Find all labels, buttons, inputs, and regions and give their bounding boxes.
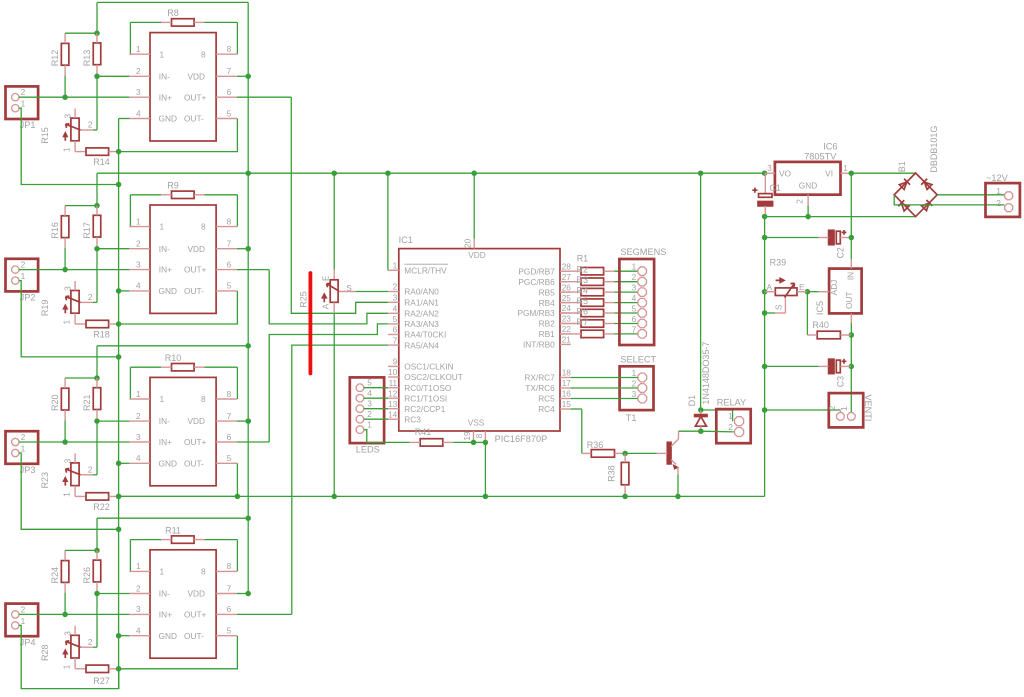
svg-text:1: 1 [21, 99, 26, 109]
wire [194, 195, 237, 227]
resistor R2 [581, 278, 604, 285]
svg-text:OUT-: OUT- [184, 114, 204, 124]
pin stubs [129, 561, 237, 636]
trimmer R15 [40, 109, 93, 153]
svg-text:7: 7 [227, 411, 232, 421]
svg-text:IN: IN [846, 272, 856, 280]
wire [62, 410, 68, 445]
wire [237, 613, 292, 615]
wire [19, 441, 130, 443]
wire [849, 313, 855, 337]
wire [19, 453, 122, 532]
svg-text:3: 3 [63, 286, 73, 291]
svg-text:PIC16F870P: PIC16F870P [495, 434, 548, 444]
svg-text:IC6: IC6 [823, 142, 837, 152]
svg-text:R8: R8 [167, 8, 179, 18]
wire [604, 270, 638, 272]
connector JP2 [6, 259, 39, 303]
wire [109, 494, 122, 500]
svg-text:1: 1 [61, 664, 71, 669]
svg-text:GND: GND [799, 180, 817, 190]
svg-text:10: 10 [388, 367, 398, 377]
svg-text:R13: R13 [82, 50, 92, 67]
wire [194, 22, 237, 54]
svg-text:1N4148DO35-7: 1N4148DO35-7 [701, 342, 711, 405]
wire [97, 248, 129, 250]
svg-text:1: 1 [61, 147, 71, 152]
svg-text:2: 2 [136, 66, 141, 76]
wire [624, 453, 626, 462]
svg-text:4: 4 [367, 388, 372, 398]
svg-text:RC5: RC5 [538, 394, 555, 404]
svg-text:R10: R10 [165, 353, 182, 363]
svg-text:R38: R38 [606, 465, 616, 482]
svg-text:R5: R5 [577, 296, 589, 306]
svg-text:R9: R9 [167, 181, 179, 191]
svg-text:2: 2 [367, 409, 372, 419]
wire [94, 582, 100, 647]
wire [119, 119, 238, 152]
svg-text:JP4: JP4 [20, 637, 36, 647]
svg-text:VDD: VDD [188, 71, 206, 81]
wire [850, 259, 852, 268]
svg-text:GND: GND [159, 114, 177, 124]
svg-text:IN+: IN+ [159, 610, 172, 620]
wire [97, 593, 129, 595]
svg-text:DBDB101G: DBDB101G [929, 126, 939, 173]
op-amp IC block 1 [150, 33, 216, 141]
svg-text:8: 8 [227, 216, 232, 226]
wire [625, 452, 657, 454]
wire [364, 430, 410, 443]
op-amp IC block 4 [150, 550, 216, 658]
svg-text:RC4: RC4 [538, 404, 555, 414]
wire [698, 428, 704, 434]
svg-text:1: 1 [136, 44, 141, 54]
wire [604, 291, 638, 293]
svg-text:R19: R19 [40, 300, 50, 317]
svg-text:2: 2 [632, 272, 637, 282]
svg-text:16: 16 [562, 389, 572, 399]
svg-text:MCLR/THV: MCLR/THV [404, 266, 447, 276]
svg-text:OSC2/CLKOUT: OSC2/CLKOUT [404, 372, 463, 382]
svg-text:R27: R27 [93, 676, 110, 686]
wire [765, 410, 841, 412]
svg-text:7: 7 [393, 335, 398, 345]
wire [364, 408, 388, 410]
svg-text:RA3/AN3: RA3/AN3 [404, 319, 439, 329]
svg-text:OSC1/CLKIN: OSC1/CLKIN [404, 362, 453, 372]
svg-text:OUT-: OUT- [184, 631, 204, 641]
wire [96, 33, 98, 43]
svg-text:1: 1 [367, 420, 372, 430]
svg-text:E: E [799, 282, 805, 292]
svg-text:6: 6 [227, 259, 232, 269]
svg-text:R11: R11 [165, 525, 181, 535]
wire [443, 441, 474, 443]
wire [19, 96, 130, 98]
wire [937, 194, 1004, 196]
capacitor C3 [765, 359, 852, 387]
svg-text:R14: R14 [93, 157, 110, 167]
svg-text:VDD: VDD [188, 244, 206, 254]
wire [75, 323, 86, 325]
wire [75, 151, 86, 153]
wire [849, 335, 855, 369]
svg-text:RB1: RB1 [539, 329, 556, 339]
svg-text:13: 13 [388, 399, 398, 409]
resistor R21 [82, 388, 101, 411]
node VDD bus [245, 2, 251, 593]
wire [571, 387, 638, 389]
wire [62, 238, 68, 273]
connector JP3 [6, 431, 39, 475]
wire [841, 170, 855, 176]
wire [237, 441, 269, 443]
svg-text:JP3: JP3 [20, 465, 36, 475]
resistor R38 [606, 462, 628, 484]
wire [805, 195, 811, 220]
node GND rail [116, 410, 765, 499]
resistor R16 [50, 216, 69, 239]
svg-text:R16: R16 [50, 222, 60, 239]
wire [765, 312, 786, 314]
wire [615, 451, 628, 457]
svg-text:C2: C2 [836, 247, 846, 258]
svg-text:RELAY: RELAY [717, 398, 746, 408]
svg-text:8: 8 [201, 567, 206, 577]
resistor R4 [581, 299, 604, 306]
svg-text:2: 2 [795, 199, 805, 204]
svg-text:VI: VI [825, 169, 833, 179]
svg-text:IN+: IN+ [159, 92, 172, 102]
wire [364, 397, 388, 399]
svg-text:1: 1 [61, 320, 71, 325]
svg-text:2: 2 [728, 422, 733, 432]
svg-text:2: 2 [88, 120, 93, 130]
svg-text:R15: R15 [40, 127, 50, 144]
svg-text:R21: R21 [82, 395, 92, 412]
resistor R11 [165, 525, 194, 543]
wire [765, 172, 775, 174]
svg-text:3: 3 [63, 631, 73, 636]
wire [560, 302, 581, 304]
resistor R1 [581, 268, 604, 275]
wire [97, 1, 248, 3]
svg-text:3: 3 [63, 458, 73, 463]
wire [194, 367, 237, 399]
wire [698, 173, 704, 413]
svg-text:25: 25 [562, 293, 572, 303]
svg-text:7: 7 [227, 66, 232, 76]
svg-text:2: 2 [136, 583, 141, 593]
wire [622, 485, 628, 499]
bus R25 [299, 273, 311, 374]
wire [701, 430, 734, 433]
wire [571, 398, 638, 400]
wire [119, 291, 238, 324]
wire [269, 324, 388, 442]
wire [109, 321, 122, 327]
node GND [762, 214, 916, 220]
svg-text:11: 11 [389, 378, 398, 388]
bridge rectifier B1 [894, 126, 939, 217]
svg-text:R17: R17 [82, 222, 92, 239]
wire [571, 409, 582, 453]
wire [571, 377, 638, 379]
svg-text:6: 6 [632, 314, 637, 324]
svg-text:OUT-: OUT- [184, 286, 204, 296]
wire [850, 173, 852, 259]
svg-text:RX/RC7: RX/RC7 [524, 373, 555, 383]
svg-text:1: 1 [728, 411, 733, 421]
svg-text:4: 4 [136, 453, 141, 463]
svg-text:OUT+: OUT+ [184, 437, 207, 447]
wire [560, 281, 581, 283]
svg-text:INT/RB0: INT/RB0 [523, 340, 555, 350]
svg-text:RB5: RB5 [539, 287, 556, 297]
svg-text:R2: R2 [577, 265, 589, 275]
svg-text:RA4/T0CKI: RA4/T0CKI [404, 330, 446, 340]
wire [291, 97, 388, 313]
resistor R3 [581, 288, 604, 295]
svg-text:RB2: RB2 [539, 319, 556, 329]
svg-text:5: 5 [367, 378, 372, 388]
svg-text:R41: R41 [415, 427, 432, 437]
resistor R5 [581, 309, 604, 316]
wire [97, 75, 129, 77]
svg-text:6: 6 [227, 432, 232, 442]
svg-text:JP2: JP2 [20, 293, 36, 303]
svg-text:RA5/AN4: RA5/AN4 [404, 340, 439, 350]
svg-text:1: 1 [843, 163, 848, 173]
wire [116, 633, 130, 639]
node +5V rail [97, 170, 767, 176]
svg-text:5: 5 [393, 314, 398, 324]
connector LEDS [350, 377, 384, 454]
svg-text:IC1: IC1 [399, 235, 413, 245]
svg-text:26: 26 [562, 282, 572, 292]
wire [65, 548, 100, 561]
svg-text:9: 9 [393, 357, 398, 367]
svg-text:2: 2 [88, 464, 93, 474]
wire [65, 375, 100, 388]
wire [75, 668, 86, 670]
svg-text:OUT+: OUT+ [184, 265, 207, 275]
svg-text:2: 2 [21, 432, 26, 442]
wire [97, 515, 251, 521]
svg-text:~12V: ~12V [986, 173, 1009, 183]
resistor R24 [50, 561, 69, 584]
svg-text:R18: R18 [93, 330, 110, 340]
resistor R22 [86, 493, 110, 512]
svg-text:1: 1 [839, 406, 849, 411]
svg-text:R26: R26 [82, 567, 92, 584]
svg-text:OUT-: OUT- [184, 458, 204, 468]
wire [19, 108, 122, 187]
resistor R10 [165, 353, 194, 371]
wire [119, 118, 130, 120]
svg-text:8: 8 [201, 394, 206, 404]
svg-text:GND: GND [159, 286, 177, 296]
wire [292, 345, 388, 614]
svg-text:R3: R3 [577, 275, 589, 285]
resistor R41 [415, 427, 443, 446]
voltage regulator IC6 7805TV [767, 142, 848, 204]
svg-text:2: 2 [827, 405, 837, 410]
wire [471, 440, 488, 500]
svg-text:2: 2 [632, 378, 637, 388]
wire [560, 323, 581, 325]
wire [237, 591, 251, 597]
wire [762, 407, 768, 413]
svg-text:2: 2 [996, 198, 1001, 208]
svg-text:VSS: VSS [468, 418, 485, 428]
pin stubs [129, 389, 237, 464]
labels R1-R7 [577, 253, 589, 327]
svg-text:28: 28 [562, 261, 572, 271]
svg-text:SELECT: SELECT [620, 355, 656, 365]
resistor R7 [581, 330, 604, 337]
svg-text:3: 3 [136, 259, 141, 269]
wire [387, 173, 389, 270]
svg-text:A: A [321, 303, 331, 309]
svg-text:TX/RC6: TX/RC6 [525, 383, 555, 393]
svg-text:1: 1 [632, 262, 637, 272]
svg-text:A: A [767, 282, 773, 292]
wire [410, 441, 420, 443]
wire [805, 289, 829, 295]
svg-text:GND: GND [159, 631, 177, 641]
svg-text:IN-: IN- [159, 244, 170, 254]
svg-text:VDD: VDD [468, 250, 486, 260]
svg-text:R28: R28 [40, 644, 50, 661]
svg-text:VENTI: VENTI [863, 394, 873, 421]
wire [116, 461, 130, 467]
resistor R40 [812, 320, 840, 339]
wire [894, 195, 1004, 205]
svg-text:6: 6 [227, 87, 232, 97]
resistor R12 [50, 43, 69, 66]
svg-text:PGD/RB7: PGD/RB7 [518, 266, 555, 276]
svg-text:RA1/AN1: RA1/AN1 [404, 298, 439, 308]
capacitor C2 [765, 230, 854, 258]
wire [80, 301, 97, 303]
svg-text:1: 1 [160, 567, 165, 577]
wire [80, 474, 97, 476]
svg-text:3: 3 [136, 432, 141, 442]
trimmer R39 [765, 257, 808, 313]
wire [96, 2, 98, 33]
svg-text:VDD: VDD [188, 589, 206, 599]
wire [62, 582, 68, 617]
svg-text:1: 1 [136, 561, 141, 571]
svg-text:3: 3 [63, 114, 73, 119]
svg-text:R22: R22 [93, 502, 110, 512]
svg-text:8: 8 [201, 222, 206, 232]
microcontroller IC1 PIC16F870P [388, 235, 571, 444]
svg-text:18: 18 [562, 368, 572, 378]
svg-text:2: 2 [88, 637, 93, 647]
svg-text:1: 1 [160, 222, 165, 232]
trimmer R25 [321, 173, 353, 496]
svg-text:1: 1 [61, 492, 71, 497]
wire [560, 333, 581, 335]
svg-text:RC1/T1OSI: RC1/T1OSI [404, 393, 447, 403]
wire [269, 270, 388, 324]
svg-text:22: 22 [562, 324, 572, 334]
svg-text:C1: C1 [769, 183, 781, 193]
wire [96, 346, 98, 378]
svg-text:14: 14 [388, 409, 398, 419]
wire [604, 281, 638, 283]
wire [94, 410, 100, 475]
svg-text:4: 4 [136, 281, 141, 291]
svg-text:1: 1 [21, 271, 26, 281]
pin stubs [129, 44, 237, 119]
trimmer R28 [40, 626, 93, 670]
resistor R36 [587, 440, 615, 457]
wire [807, 292, 817, 335]
svg-text:5: 5 [227, 108, 232, 118]
svg-text:SEGMENS: SEGMENS [620, 247, 666, 257]
wire [850, 366, 852, 412]
wire [96, 518, 98, 550]
wire [97, 420, 129, 422]
svg-text:8: 8 [227, 44, 232, 54]
svg-text:1: 1 [160, 49, 165, 59]
svg-text:IN+: IN+ [159, 265, 172, 275]
svg-text:2: 2 [136, 411, 141, 421]
svg-text:R36: R36 [587, 440, 604, 450]
svg-text:RC3: RC3 [404, 414, 421, 424]
wire [194, 540, 237, 572]
svg-text:7: 7 [227, 583, 232, 593]
svg-text:1: 1 [393, 261, 398, 271]
svg-text:LEDS: LEDS [356, 445, 380, 455]
svg-text:7805TV: 7805TV [804, 152, 837, 162]
svg-text:OUT+: OUT+ [184, 610, 207, 620]
connector SELECT [620, 355, 657, 423]
wire [96, 206, 98, 216]
svg-text:1: 1 [21, 443, 26, 453]
wire [675, 431, 701, 499]
svg-text:R6: R6 [577, 306, 589, 316]
wire [130, 367, 171, 399]
wire [130, 22, 171, 54]
wire [119, 463, 238, 496]
wire [339, 291, 388, 293]
wire [119, 636, 238, 669]
svg-text:R23: R23 [40, 472, 50, 489]
svg-text:17: 17 [562, 378, 572, 388]
svg-text:PGC/RB6: PGC/RB6 [518, 277, 555, 287]
wire [116, 288, 130, 294]
svg-text:4: 4 [632, 293, 637, 303]
svg-text:GND: GND [159, 458, 177, 468]
svg-text:ADJ: ADJ [829, 280, 839, 296]
svg-text:E: E [321, 275, 331, 281]
wire [237, 418, 251, 424]
resistor R18 [86, 320, 110, 339]
svg-text:R25: R25 [299, 291, 309, 308]
svg-text:2: 2 [21, 604, 26, 614]
wire [701, 410, 733, 421]
svg-text:4: 4 [393, 304, 398, 314]
connector VENTI [827, 393, 873, 427]
op-amp IC block 2 [150, 205, 216, 313]
svg-text:2: 2 [393, 282, 398, 292]
